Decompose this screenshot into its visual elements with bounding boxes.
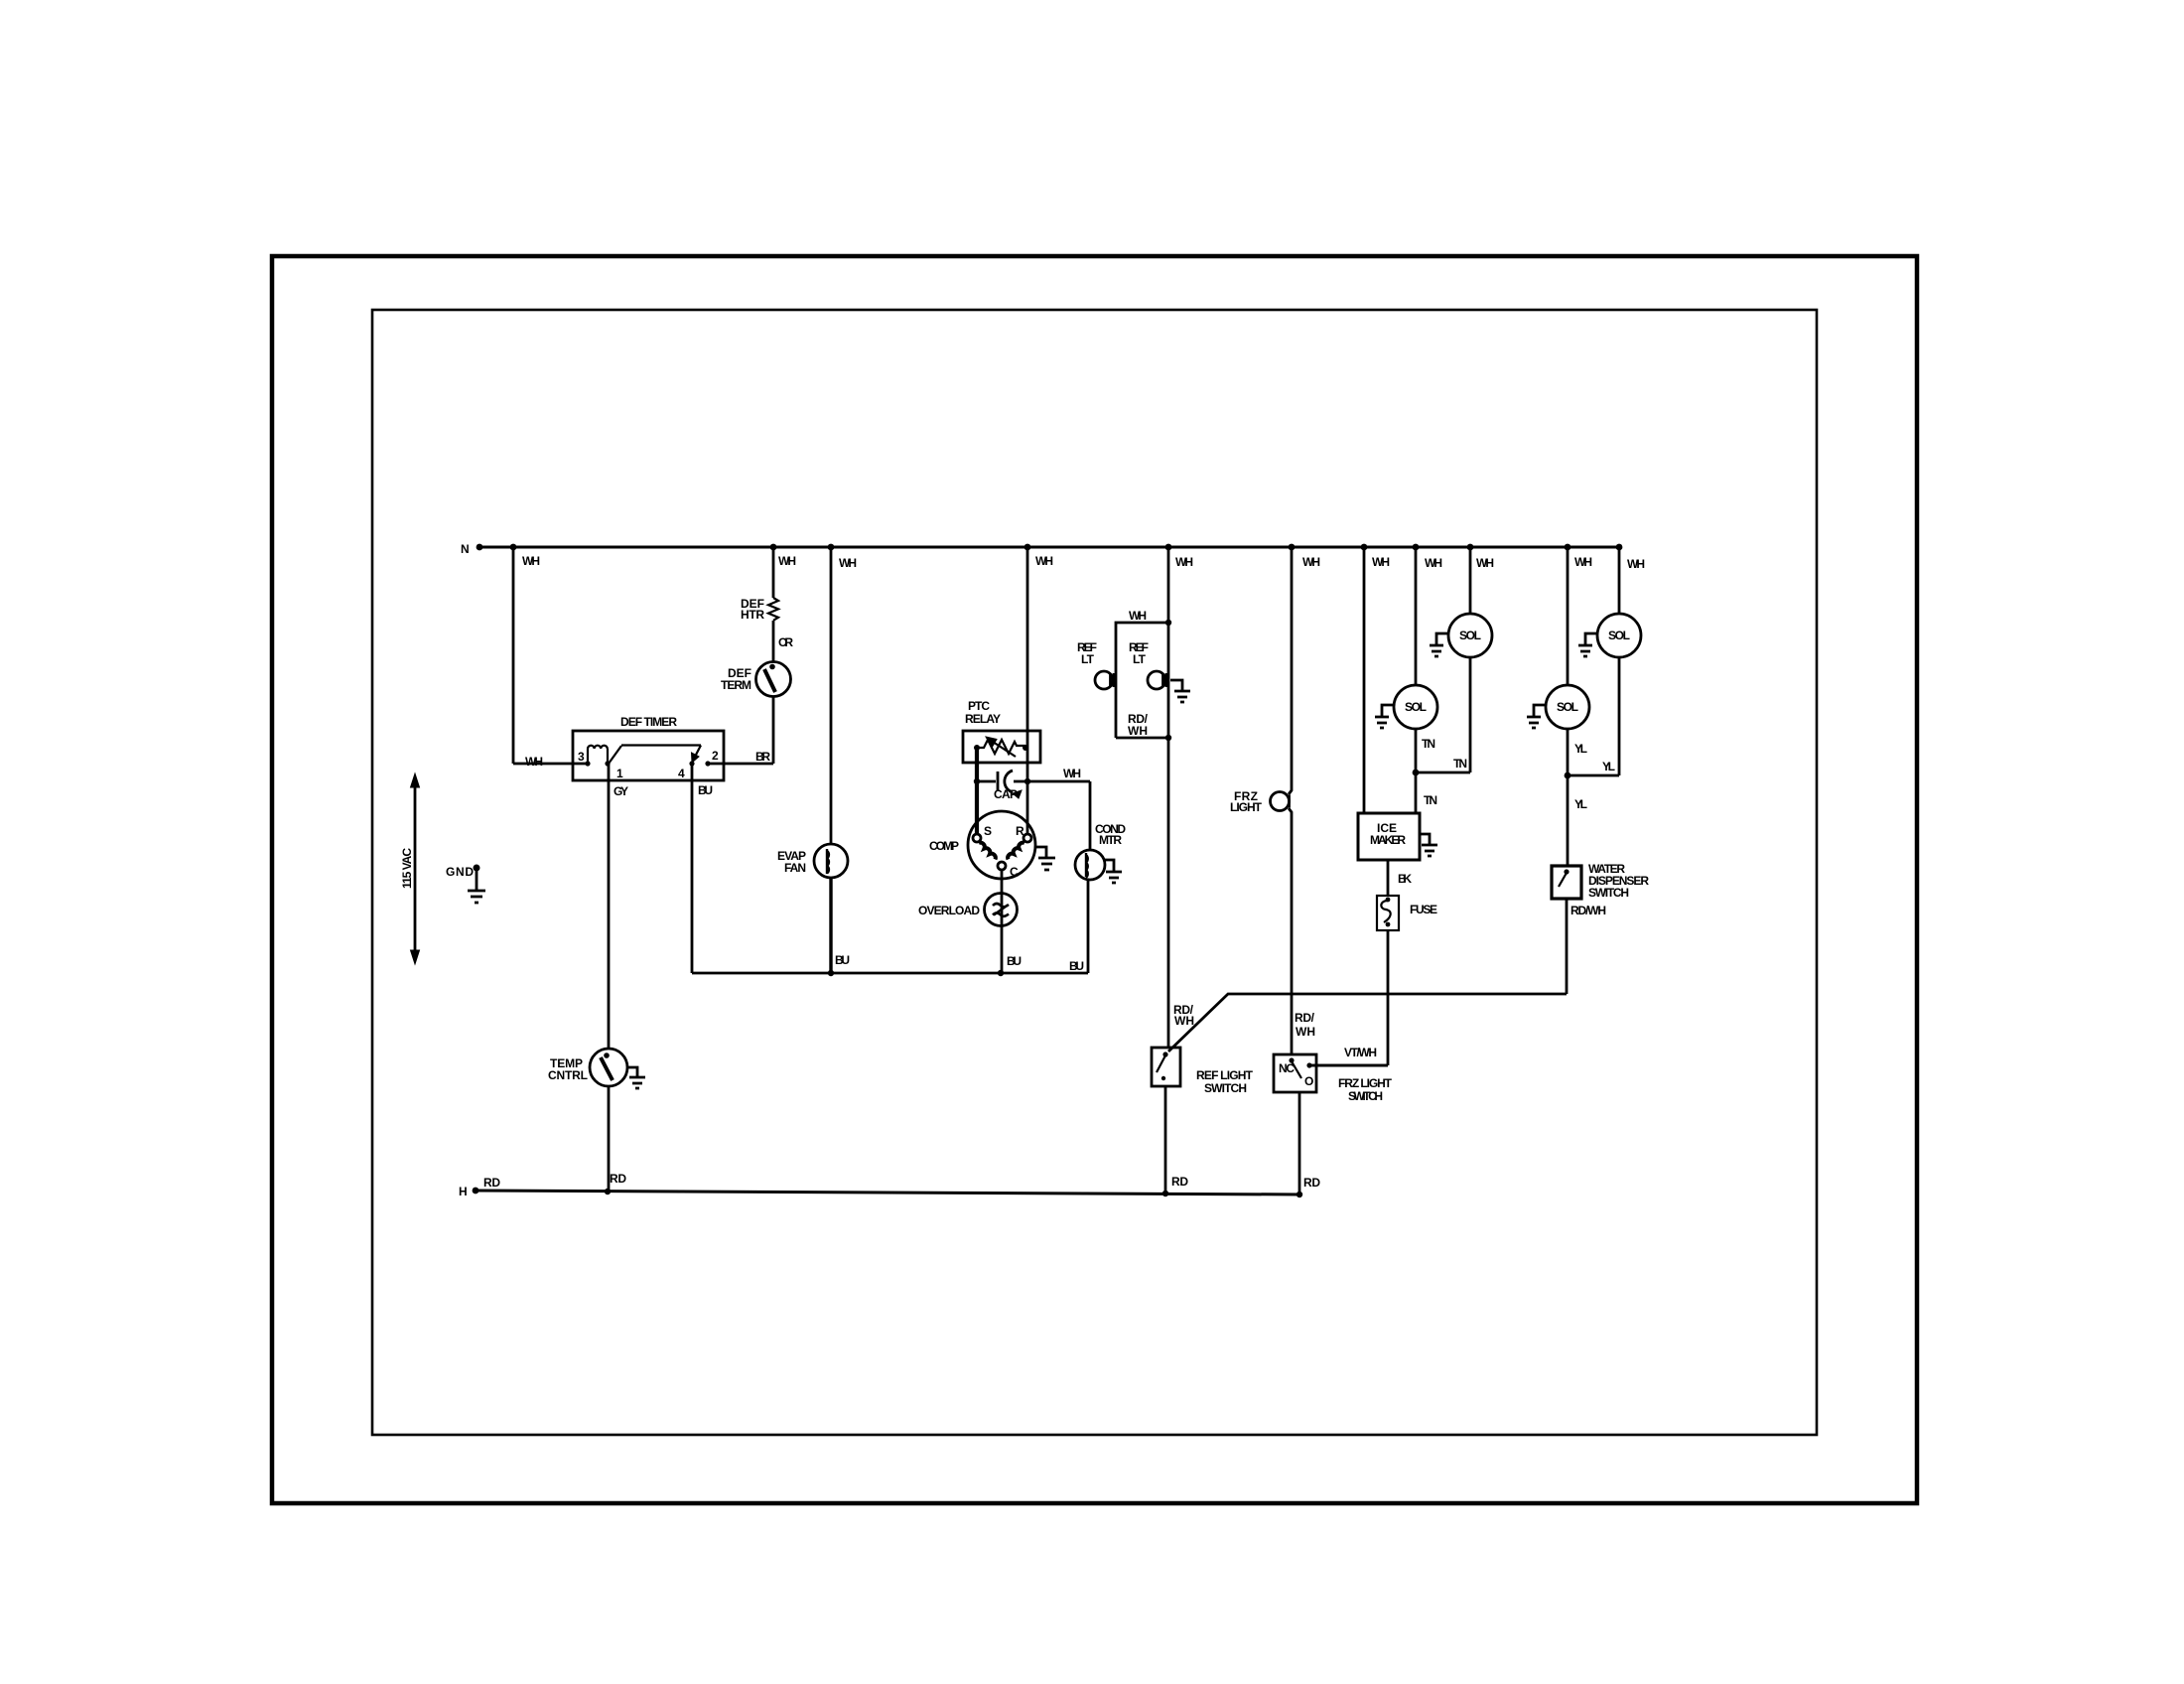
svg-text:SOL: SOL	[1608, 629, 1630, 642]
svg-text:WH: WH	[839, 556, 857, 570]
svg-text:SWITCH: SWITCH	[1588, 886, 1629, 900]
svg-text:SWITCH: SWITCH	[1348, 1089, 1383, 1103]
svg-text:WH: WH	[778, 554, 796, 568]
svg-text:WH: WH	[1476, 556, 1494, 570]
svg-text:YL: YL	[1574, 742, 1587, 756]
svg-text:N: N	[461, 542, 470, 556]
svg-text:WH: WH	[1574, 555, 1592, 569]
svg-text:2: 2	[712, 749, 719, 763]
svg-text:RD/WH: RD/WH	[1570, 904, 1606, 917]
svg-text:RD/: RD/	[1295, 1011, 1315, 1025]
svg-text:WH: WH	[1035, 554, 1053, 568]
svg-text:TN: TN	[1453, 757, 1467, 771]
svg-text:BU: BU	[835, 953, 850, 967]
svg-text:TN: TN	[1424, 793, 1437, 807]
svg-text:MTR: MTR	[1099, 833, 1122, 847]
svg-text:NC: NC	[1279, 1061, 1295, 1075]
svg-text:OVERLOAD: OVERLOAD	[918, 904, 980, 917]
svg-text:RD: RD	[610, 1172, 626, 1186]
svg-text:SOL: SOL	[1405, 700, 1427, 714]
svg-text:WH: WH	[1063, 767, 1081, 780]
svg-text:WH: WH	[1296, 1025, 1315, 1039]
svg-text:GY: GY	[614, 784, 628, 798]
svg-text:RD: RD	[483, 1176, 500, 1190]
svg-text:YL: YL	[1574, 797, 1587, 811]
svg-text:LIGHT: LIGHT	[1230, 800, 1263, 814]
svg-text:BU: BU	[698, 783, 713, 797]
svg-text:BU: BU	[1007, 954, 1022, 968]
svg-text:BU: BU	[1069, 959, 1084, 973]
svg-text:LT: LT	[1133, 652, 1147, 666]
svg-text:YL: YL	[1602, 760, 1615, 773]
svg-text:RD: RD	[1303, 1176, 1320, 1190]
svg-text:MAKER: MAKER	[1370, 833, 1406, 847]
svg-text:FRZ LIGHT: FRZ LIGHT	[1338, 1076, 1393, 1090]
svg-text:WH: WH	[1175, 555, 1193, 569]
svg-text:TERM: TERM	[721, 678, 751, 692]
svg-text:SOL: SOL	[1557, 700, 1578, 714]
svg-text:WH: WH	[522, 554, 540, 568]
svg-text:O: O	[1304, 1074, 1313, 1088]
svg-text:DEF TIMER: DEF TIMER	[620, 715, 677, 729]
svg-text:REF LIGHT: REF LIGHT	[1196, 1068, 1254, 1082]
svg-text:4: 4	[678, 767, 685, 780]
svg-text:LT: LT	[1081, 652, 1095, 666]
svg-text:WH: WH	[1425, 556, 1442, 570]
svg-text:SOL: SOL	[1459, 629, 1481, 642]
svg-text:WH: WH	[1627, 557, 1645, 571]
svg-text:PTC: PTC	[968, 699, 990, 713]
svg-text:RD: RD	[1171, 1175, 1188, 1189]
svg-text:CNTRL: CNTRL	[548, 1068, 588, 1082]
svg-text:WH: WH	[525, 755, 543, 769]
svg-text:HTR: HTR	[741, 608, 764, 622]
svg-text:RELAY: RELAY	[965, 712, 1001, 726]
svg-text:GND: GND	[446, 865, 474, 879]
svg-text:VT/WH: VT/WH	[1344, 1046, 1377, 1059]
svg-text:WH: WH	[1174, 1014, 1194, 1028]
svg-text:BR: BR	[755, 750, 770, 764]
svg-text:FAN: FAN	[784, 861, 806, 875]
svg-text:COMP: COMP	[929, 839, 959, 853]
svg-text:3: 3	[578, 750, 585, 764]
svg-text:WH: WH	[1128, 724, 1148, 738]
svg-text:TN: TN	[1422, 737, 1435, 751]
svg-text:C: C	[1010, 865, 1019, 879]
svg-text:WH: WH	[1129, 609, 1147, 623]
svg-text:SWITCH: SWITCH	[1204, 1081, 1247, 1095]
svg-text:BK: BK	[1398, 872, 1412, 886]
svg-text:OR: OR	[778, 635, 793, 649]
svg-text:1: 1	[616, 767, 623, 780]
svg-text:H: H	[459, 1185, 468, 1198]
svg-text:CAP: CAP	[994, 787, 1018, 801]
svg-text:R: R	[1016, 824, 1024, 838]
svg-text:WH: WH	[1372, 555, 1390, 569]
svg-text:115 VAC: 115 VAC	[400, 848, 414, 889]
svg-text:WH: WH	[1302, 555, 1320, 569]
svg-text:S: S	[984, 824, 992, 838]
svg-text:FUSE: FUSE	[1410, 903, 1437, 916]
